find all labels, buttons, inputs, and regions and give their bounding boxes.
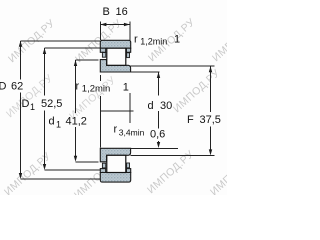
bore edge left vertical (99, 75, 101, 148)
svg-text:1,2min: 1,2min (140, 37, 167, 47)
svg-text:0,6: 0,6 (150, 129, 165, 141)
inner ring lower (band + flange) (100, 148, 130, 162)
cage bar upper left (102, 53, 105, 58)
d bottom extension line (131, 147, 178, 149)
outer ring upper band (100, 40, 130, 48)
svg-text:D: D (22, 98, 30, 110)
roller upper (107, 48, 126, 65)
svg-text:r: r (76, 81, 80, 93)
svg-text:D: D (0, 81, 7, 93)
F dimension line (210, 66, 212, 150)
cage bar lower left (102, 163, 105, 168)
bore edge right vertical (129, 93, 131, 123)
cage bar lower right (127, 163, 130, 168)
outer ring upper right flange (126, 48, 130, 52)
outer ring lower right flange (126, 169, 130, 173)
cage bar upper right (127, 53, 130, 58)
B arrow right (124, 23, 130, 26)
d1 dimension line (75, 60, 77, 157)
svg-text:52,5: 52,5 (41, 98, 62, 110)
svg-text:r: r (114, 124, 118, 136)
svg-text:d: d (148, 100, 154, 112)
B left extension line (99, 22, 101, 41)
D1 bottom extension line (45, 169, 101, 171)
B right extension line (129, 22, 131, 41)
outer ring lower left flange (100, 169, 105, 173)
d1 arrow bottom (74, 156, 77, 162)
svg-text:3,4min: 3,4min (119, 128, 145, 138)
F top extension line (131, 65, 215, 67)
svg-text:16: 16 (116, 6, 128, 18)
d arrow bottom (157, 142, 160, 148)
D arrow top (19, 41, 22, 47)
F arrow bottom (209, 149, 212, 155)
D1 dimension line (44, 48, 46, 165)
svg-text:30: 30 (160, 100, 172, 112)
svg-text:r: r (134, 33, 138, 45)
svg-text:B: B (103, 6, 110, 18)
D1 top extension line (45, 47, 104, 49)
D arrow bottom (19, 173, 22, 179)
D dimension line (20, 41, 22, 174)
D top extension line (21, 40, 101, 42)
d1 bottom extension line (76, 161, 99, 163)
svg-text:1: 1 (56, 120, 61, 130)
B arrow left (100, 23, 106, 26)
outer ring lower band (100, 173, 130, 183)
svg-text:1: 1 (30, 102, 35, 112)
B dimension line (100, 24, 129, 26)
svg-text:62: 62 (11, 81, 23, 93)
svg-text:F: F (187, 114, 194, 126)
outer ring upper left flange (100, 48, 105, 52)
F arrow top (209, 66, 212, 72)
inner ring upper (flange + band) (100, 60, 130, 72)
svg-text:d: d (49, 116, 55, 128)
F bottom extension line (131, 154, 215, 156)
svg-text:1,2min: 1,2min (82, 84, 111, 95)
roller lower (107, 155, 126, 172)
D1 arrow top (43, 48, 46, 54)
centerline (100, 110, 133, 112)
D1 arrow bottom (43, 164, 46, 170)
svg-text:1: 1 (123, 82, 129, 94)
svg-text:41,2: 41,2 (66, 116, 87, 128)
d1 top extension line (76, 59, 99, 61)
D bottom extension line (21, 178, 101, 180)
d top extension line (131, 71, 160, 73)
d1 arrow top (74, 60, 77, 66)
svg-text:37,5: 37,5 (200, 114, 221, 126)
watermark ИМПОД.РУ tiles (2, 16, 261, 201)
svg-text:1: 1 (174, 33, 180, 45)
d dimension line (158, 72, 160, 144)
d arrow top (157, 72, 160, 78)
